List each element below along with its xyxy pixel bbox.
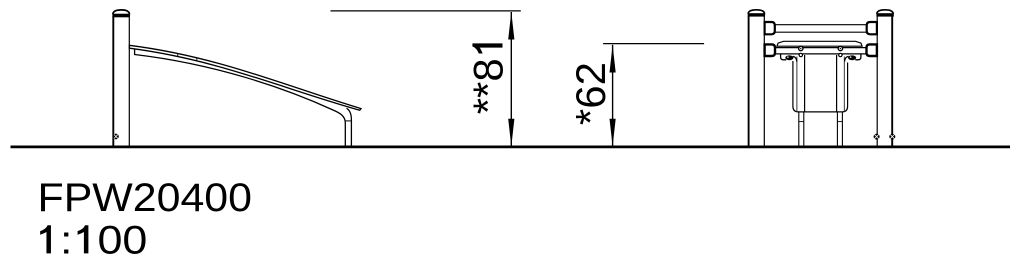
svg-text:**8: **8 [465, 58, 512, 114]
svg-text::: : [60, 218, 72, 262]
svg-text:00: 00 [97, 218, 147, 262]
svg-text:FPW20400: FPW20400 [38, 176, 253, 220]
svg-text:*62: *62 [567, 62, 614, 125]
